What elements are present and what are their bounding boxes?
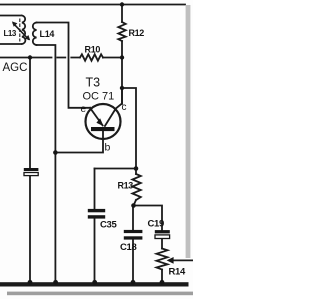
transistor T3 base bar: [91, 127, 115, 131]
svg-text:R10: R10: [85, 45, 101, 55]
wire AGC line with crossover breaks: [0, 57, 80, 59]
wire C35 top / R13 top node: [95, 168, 137, 170]
wire base to line A: [55, 131, 103, 153]
inductor L13 core dashes: [19, 19, 21, 41]
wire C18 bottom to rail: [132, 240, 134, 283]
inductor L13 tuning arrow: [12, 21, 30, 40]
inductor L13 box top line: [0, 15, 21, 17]
wire top supply rail: [0, 4, 185, 6]
junction node rail cap-left: [28, 280, 33, 285]
svg-text:AGC: AGC: [3, 62, 28, 74]
svg-text:OC 71: OC 71: [83, 91, 115, 103]
junction node rail C18: [131, 280, 136, 285]
capacitor C35 plates: [88, 209, 105, 212]
junction node C18/C19: [131, 203, 136, 208]
junction node R10/R12: [120, 55, 124, 59]
capacitor C(left) line: [29, 58, 31, 283]
capacitor C35 line: [94, 169, 96, 283]
svg-text:L13: L13: [4, 29, 17, 38]
capacitor C19 plates: [155, 230, 170, 233]
svg-text:c: c: [122, 102, 127, 113]
wire R12 branch vertical: [121, 5, 123, 105]
svg-text:C18: C18: [120, 242, 137, 253]
junction node rail line A: [53, 280, 58, 285]
resistor R10: [80, 54, 103, 60]
capacitor C(left) plates: [24, 168, 39, 171]
resistor R12: [118, 22, 125, 41]
inductor L14 coil: [33, 23, 37, 46]
resistor R13: [132, 174, 140, 200]
wire R10 to R12 node: [103, 57, 122, 59]
svg-text:T3: T3: [86, 76, 101, 90]
wire L14 bottom to ground line A: [37, 45, 56, 283]
svg-text:e: e: [81, 104, 87, 115]
inductor L13 coil: [22, 16, 25, 45]
potentiometer R14 wiper arrowhead: [167, 257, 174, 264]
junction node collector: [120, 86, 124, 90]
svg-text:C19: C19: [148, 219, 165, 230]
wire R14 wiper arm: [172, 259, 194, 261]
transistor T3 circle: [86, 104, 121, 139]
transistor T3 emitter arrowhead: [96, 118, 103, 126]
svg-text:R13: R13: [118, 181, 134, 191]
wire collector branch to R13: [122, 88, 136, 174]
wire C19 bottom to R14: [161, 239, 163, 249]
wire R14 bottom to rail: [161, 270, 163, 283]
junction node R13 top: [134, 166, 139, 171]
transistor T3 emitter lead: [90, 108, 103, 126]
svg-text:b: b: [105, 142, 111, 154]
capacitor C18 plates: [124, 230, 143, 233]
svg-text:R14: R14: [169, 267, 187, 278]
inductor L13 box bottom line: [0, 43, 21, 45]
svg-text:R12: R12: [129, 28, 145, 38]
wire R13 bottom to C18 node: [133, 200, 136, 230]
page shadow right edge: [186, 5, 191, 258]
wire C18 node to C19: [134, 206, 163, 230]
transistor T3 collector lead: [105, 88, 122, 126]
resistor R14: [157, 249, 168, 270]
junction node base/line A: [53, 150, 58, 155]
junction node AGC/cap: [28, 55, 32, 59]
page shadow bottom: [7, 292, 193, 296]
svg-text:L14: L14: [40, 29, 55, 39]
wire L14 top to emitter line: [37, 23, 91, 108]
junction node top R12: [120, 2, 124, 6]
junction node rail R14: [160, 280, 165, 285]
svg-text:C35: C35: [100, 220, 118, 231]
junction node rail C35: [92, 280, 97, 285]
ground rail: [0, 282, 189, 286]
